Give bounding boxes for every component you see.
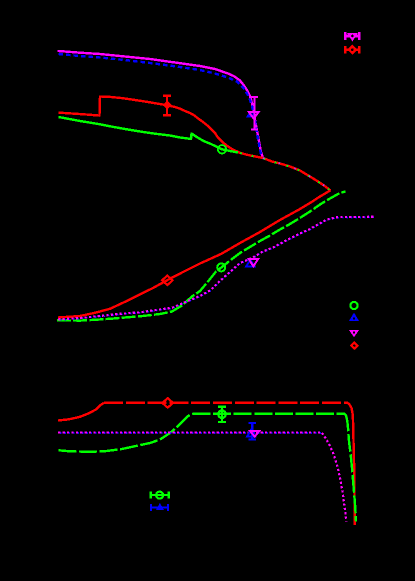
marker: red filled diamond (upper panel, on red curve) [163, 101, 172, 110]
marker: red error bar (upper panel, x=167) [163, 96, 171, 116]
legend lower: blue horizontal error bar + filled triangle [151, 504, 168, 511]
legend: red filled diamond [350, 341, 359, 350]
marker: blue filled triangle up (upper panel, behind magenta) [246, 111, 254, 118]
curve: green upper-middle with jump (upper panel) [59, 117, 239, 153]
marker: blue error bar (lower panel) [249, 423, 257, 440]
marker: magenta open triangle down (lower panel) [250, 431, 259, 437]
legend: magenta filled triangle down [349, 330, 359, 337]
curve: magenta top solid (upper panel) [59, 51, 264, 158]
marker: magenta open triangle down (upper panel lower branch) [249, 259, 259, 266]
legend lower: green horizontal error bar + open circle [151, 492, 169, 499]
curve: magenta+blue specks on merged descending branch [263, 158, 328, 189]
marker: red open diamond (lower panel) [162, 398, 173, 407]
marker: blue open triangle up (upper panel lower branch, behind magenta) [246, 260, 254, 267]
marker: green error bar + open circle (lower panel) [218, 407, 226, 422]
marker: red diamond + horizontal error bar (top right) [345, 46, 360, 53]
marker: green open circle (upper panel, on green curve) [218, 145, 226, 153]
curve: red lower panel with long dashes [58, 403, 104, 421]
curve: green lower branch long-dash (upper panel) [57, 191, 346, 320]
marker: green open circle (upper panel lower branch) [217, 263, 225, 271]
curve: green lower panel dashed [59, 414, 193, 452]
legend: green open circle [350, 302, 357, 309]
curve: blue dotted underlay of magenta (lower panel) [58, 432, 321, 434]
curve: red upper branch with step (upper panel) [59, 97, 331, 191]
curve: magenta dotted lower panel [58, 432, 346, 521]
curve: blue dotted underlay of magenta lower branch (upper panel) [58, 217, 374, 320]
curve: red lower branch (upper panel) [58, 190, 331, 317]
marker: magenta triangle + horizontal error bar (top right) [345, 32, 360, 40]
legend: blue filled triangle up [349, 313, 359, 322]
curve: blue top dashed (upper panel) [59, 54, 264, 159]
marker: magenta open triangle down (upper panel) [249, 112, 259, 119]
marker: red open diamond (upper panel lower branch) [162, 276, 172, 286]
curve: magenta dotted lower branch (upper panel) [58, 217, 374, 320]
curve: green dashes over merged descending branch (upper panel) [240, 153, 331, 191]
marker: blue open triangle up (lower panel, behind magenta) [247, 430, 255, 437]
marker: magenta error bar (upper panel, x=254.5) [251, 97, 258, 130]
